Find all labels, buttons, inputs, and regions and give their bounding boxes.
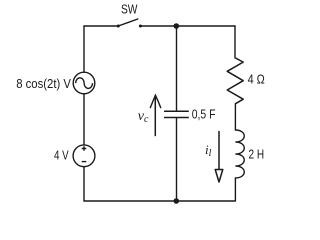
svg-text:il: il bbox=[205, 142, 212, 159]
wire right branch lower (inductor to bottom-right corner) bbox=[234, 178, 236, 201]
svg-text:SW: SW bbox=[121, 2, 138, 17]
arrow v_c (upward voltage arrow) bbox=[150, 95, 160, 135]
dc source plus sign bbox=[82, 146, 87, 151]
wire left branch lower (DC source to bottom-left corner) bbox=[83, 167, 85, 201]
wire right branch upper (top-right corner to resistor) bbox=[234, 26, 236, 58]
dc source V2 bbox=[73, 145, 95, 167]
inductor L1 bbox=[235, 130, 244, 178]
svg-text:4 Ω: 4 Ω bbox=[248, 73, 265, 87]
switch right contact bbox=[139, 25, 142, 28]
svg-text:4 V: 4 V bbox=[54, 149, 69, 163]
arrow i_l (downward current arrow, open head) bbox=[215, 132, 223, 183]
ac source V1 bbox=[73, 72, 95, 94]
ac source sine symbol bbox=[76, 78, 93, 89]
wire capacitor branch upper (top junction to top plate) bbox=[176, 26, 178, 111]
switch blade bbox=[118, 19, 138, 26]
switch SW bbox=[117, 2, 142, 28]
svg-text:vc: vc bbox=[138, 109, 149, 125]
switch left contact bbox=[117, 25, 120, 28]
dc source circle bbox=[73, 145, 95, 167]
svg-text:8 cos(2t) V: 8 cos(2t) V bbox=[16, 77, 71, 91]
node bottom junction bbox=[174, 198, 180, 204]
wire left branch middle (AC source to DC source) bbox=[83, 94, 85, 145]
node top junction bbox=[174, 23, 180, 29]
capacitor bottom plate bbox=[164, 117, 189, 119]
svg-text:2 H: 2 H bbox=[249, 148, 265, 162]
dc source minus sign bbox=[82, 161, 87, 163]
wire capacitor branch lower (bottom plate to bottom junction) bbox=[176, 118, 178, 201]
capacitor top plate bbox=[164, 110, 189, 112]
wire right branch middle (resistor to inductor) bbox=[234, 104, 236, 130]
capacitor C1 bbox=[164, 111, 189, 117]
wire top-left horizontal (corner to switch) bbox=[84, 25, 118, 27]
wire left branch upper (top-left corner to AC source) bbox=[83, 26, 85, 72]
ac source circle bbox=[73, 72, 95, 94]
wire bottom horizontal bbox=[84, 200, 235, 202]
resistor R1 bbox=[227, 58, 243, 104]
wire top-right horizontal (switch to top-right corner) bbox=[141, 25, 236, 27]
svg-text:0,5 F: 0,5 F bbox=[192, 108, 216, 122]
